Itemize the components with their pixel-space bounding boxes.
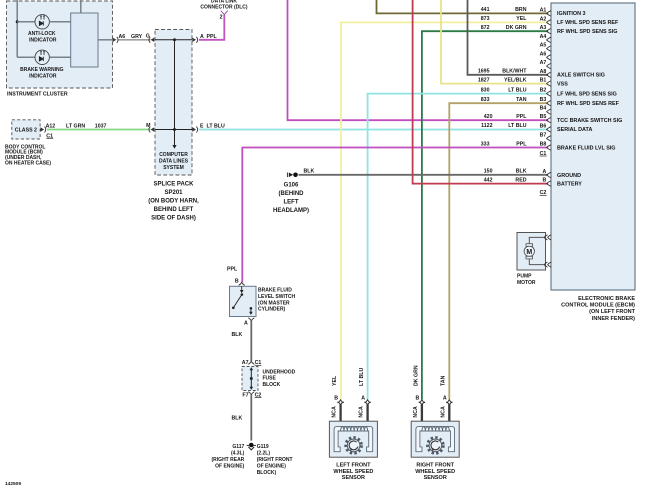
svg-text:CYLINDER): CYLINDER)	[258, 307, 286, 313]
computer data lines system box	[155, 30, 192, 176]
svg-text:(RIGHT REAR: (RIGHT REAR	[212, 457, 245, 463]
svg-text:A: A	[361, 396, 365, 402]
svg-text:B3: B3	[540, 97, 547, 103]
svg-text:WHEEL SPEED: WHEEL SPEED	[333, 469, 373, 475]
svg-text:AXLE SWITCH SIG: AXLE SWITCH SIG	[557, 73, 605, 79]
svg-text:B1: B1	[540, 78, 547, 84]
EBCM pin B6	[540, 123, 551, 132]
svg-text:RF WHL SPD SENS REF: RF WHL SPD SENS REF	[557, 101, 620, 107]
wire BLK 150 (G106 to EBCM A)	[299, 174, 549, 176]
svg-text:BLOCK): BLOCK)	[257, 470, 277, 476]
svg-text:NCA: NCA	[359, 406, 365, 418]
svg-text:2: 2	[220, 15, 223, 21]
svg-text:INSTRUMENT CLUSTER: INSTRUMENT CLUSTER	[7, 92, 68, 98]
svg-text:BEHIND LEFT: BEHIND LEFT	[154, 207, 194, 213]
node (bus serial junction)	[173, 128, 176, 131]
connector A6 (cluster edge)	[113, 37, 118, 43]
svg-text:830: 830	[481, 87, 490, 93]
svg-text:GROUND: GROUND	[557, 173, 581, 179]
anti-lock indicator LED	[28, 15, 57, 44]
ground G117/G119	[212, 443, 293, 476]
svg-text:B8: B8	[540, 142, 547, 148]
wire BLK/WHT 1695 (top edge to EBCM A8)	[468, 0, 549, 75]
instrument cluster box	[7, 1, 113, 98]
EBCM box	[551, 3, 635, 290]
svg-text:WHEEL SPEED: WHEEL SPEED	[415, 469, 455, 475]
svg-text:COMPUTER: COMPUTER	[159, 152, 188, 158]
svg-text:BLK: BLK	[232, 416, 243, 422]
node (bus top junction)	[173, 38, 176, 41]
svg-text:A8: A8	[540, 69, 547, 75]
svg-text:A: A	[443, 396, 447, 402]
svg-text:HEADLAMP): HEADLAMP)	[273, 208, 309, 214]
svg-text:UNDERHOOD: UNDERHOOD	[263, 369, 296, 375]
left front sensor label	[333, 463, 373, 482]
svg-text:LEFT FRONT: LEFT FRONT	[336, 463, 371, 469]
wire NCA pigtail B	[339, 404, 341, 428]
EBCM pin B5	[540, 114, 551, 123]
data link connector DLC pin 2	[200, 0, 247, 21]
svg-text:A: A	[244, 321, 248, 327]
svg-text:A3: A3	[540, 25, 547, 31]
EBCM pin A1	[540, 7, 551, 16]
svg-text:BRAKE WARNING: BRAKE WARNING	[20, 67, 63, 73]
wire TAN 833 (EBCM B3 to RF sensor)	[449, 103, 548, 399]
svg-text:BRN: BRN	[515, 7, 527, 13]
svg-text:LT BLU: LT BLU	[359, 368, 365, 386]
svg-text:A6: A6	[119, 34, 126, 40]
svg-text:VSS: VSS	[557, 81, 568, 87]
svg-text:SP201: SP201	[164, 190, 183, 196]
EBCM pin A3	[540, 25, 551, 34]
wire (brake warning to module box)	[49, 56, 70, 58]
wire (module box to cluster edge, pin A6)	[98, 39, 112, 41]
svg-text:PPL: PPL	[516, 114, 527, 120]
svg-text:1037: 1037	[95, 124, 107, 130]
svg-text:LF WHL SPD SENS REF: LF WHL SPD SENS REF	[557, 20, 619, 26]
wire LT BLU 1122 (serial data to EBCM B6)	[199, 129, 548, 131]
svg-text:TAN: TAN	[516, 97, 527, 103]
svg-text:PPL: PPL	[227, 267, 238, 273]
wire RED 442 (top edge to EBCM B)	[413, 0, 549, 184]
svg-text:LT BLU: LT BLU	[508, 87, 526, 93]
wire LT BLU 830 (EBCM B2 to LF sensor)	[368, 94, 549, 400]
EBCM connector label C1	[540, 151, 547, 157]
svg-text:ANTI-LOCK: ANTI-LOCK	[28, 31, 56, 37]
svg-text:GRY: GRY	[131, 34, 143, 40]
svg-text:YEL: YEL	[332, 375, 338, 386]
EBCM pin B4	[540, 106, 551, 115]
svg-text:IGNITION 3: IGNITION 3	[557, 11, 585, 17]
svg-text:G119: G119	[257, 444, 269, 450]
svg-text:(ON MASTER: (ON MASTER	[258, 300, 290, 306]
svg-text:(BEHIND: (BEHIND	[279, 191, 305, 197]
wire YEL 873 (EBCM A2 to LF sensor)	[341, 22, 548, 399]
class 2 module box	[12, 120, 40, 139]
svg-text:SERIAL DATA: SERIAL DATA	[557, 127, 592, 133]
EBCM pin A5	[540, 43, 551, 52]
wire BRN 441 (from top edge to EBCM A1)	[377, 0, 549, 13]
svg-text:NCA: NCA	[332, 406, 338, 418]
connector (pump motor top lead)	[544, 235, 551, 240]
svg-text:142509: 142509	[5, 481, 21, 487]
wire (module box to top edge)	[80, 0, 82, 13]
node (rail junction)	[16, 20, 19, 23]
svg-text:BATTERY: BATTERY	[557, 181, 582, 187]
EBCM pin B	[543, 178, 551, 187]
svg-text:CLASS 2: CLASS 2	[15, 128, 37, 134]
body control module label	[5, 144, 51, 166]
connector (pump motor bottom lead)	[544, 262, 551, 267]
svg-text:G117: G117	[232, 444, 244, 450]
svg-text:LT GRN: LT GRN	[66, 124, 85, 130]
connector A7/C1 (fuse block top)	[242, 360, 262, 366]
svg-text:SPLICE PACK: SPLICE PACK	[154, 182, 195, 188]
EBCM connector label C2	[540, 190, 547, 196]
svg-text:CONTROL MODULE (EBCM): CONTROL MODULE (EBCM)	[561, 303, 635, 309]
brake warning indicator LED	[20, 50, 63, 80]
svg-text:B: B	[235, 279, 239, 285]
svg-text:B: B	[543, 178, 547, 184]
svg-text:M: M	[526, 249, 532, 256]
svg-text:BLK: BLK	[516, 169, 527, 175]
EBCM pin A4	[540, 34, 551, 43]
svg-text:RED: RED	[515, 177, 526, 183]
wire (left rail)	[16, 0, 18, 57]
svg-text:BLK/WHT: BLK/WHT	[502, 69, 527, 75]
svg-text:(ON LEFT FRONT: (ON LEFT FRONT	[589, 309, 635, 315]
svg-text:B5: B5	[540, 114, 547, 120]
svg-text:DATA LINES: DATA LINES	[159, 158, 189, 164]
connector A12 (class 2 box edge)	[40, 127, 45, 133]
svg-text:A2: A2	[540, 16, 547, 22]
svg-text:1695: 1695	[478, 69, 490, 75]
svg-text:TAN: TAN	[441, 375, 447, 386]
svg-text:CONNECTOR (DLC): CONNECTOR (DLC)	[200, 4, 247, 10]
svg-text:B2: B2	[540, 88, 547, 94]
cluster internal module box	[71, 13, 98, 67]
connector F7/C2 (fuse block bottom)	[242, 392, 261, 399]
right front wheel speed sensor body	[411, 421, 459, 457]
svg-text:A5: A5	[540, 43, 547, 49]
wire PPL 333 (EBCM B8 to brake fluid switch)	[242, 148, 548, 283]
EBCM pin B8	[540, 142, 551, 151]
svg-text:B6: B6	[540, 123, 547, 129]
underhood fuse block	[242, 367, 296, 391]
EBCM pin A7	[540, 60, 551, 69]
wire NCA pigtail B	[421, 404, 423, 428]
svg-text:A: A	[543, 169, 547, 175]
svg-text:M: M	[146, 123, 151, 129]
wire YEL/BLK 1827 (top edge to EBCM B1)	[441, 0, 548, 84]
svg-text:LF WHL SPD SENS SIG: LF WHL SPD SENS SIG	[557, 91, 617, 97]
left front wheel speed sensor body	[329, 421, 377, 457]
wire BLK (fuse block to ground)	[250, 395, 252, 441]
svg-text:1827: 1827	[478, 77, 490, 83]
EBCM pin A	[543, 169, 551, 178]
svg-text:LT BLU: LT BLU	[508, 123, 526, 129]
svg-text:INNER FENDER): INNER FENDER)	[592, 316, 635, 322]
wire (rail to brake warning indicator)	[17, 56, 35, 58]
svg-text:333: 333	[481, 141, 490, 147]
svg-text:BLOCK: BLOCK	[263, 382, 281, 388]
svg-text:BRAKE FLUID: BRAKE FLUID	[258, 288, 292, 294]
EBCM pin B2	[540, 88, 551, 97]
svg-text:B: B	[334, 396, 338, 402]
EBCM pin B7	[540, 132, 551, 141]
wire (anti-lock to module box)	[49, 21, 70, 23]
right front sensor label	[415, 463, 455, 482]
svg-text:442: 442	[484, 177, 493, 183]
svg-text:TCC BRAKE SWITCH SIG: TCC BRAKE SWITCH SIG	[557, 118, 622, 124]
svg-text:SYSTEM: SYSTEM	[163, 165, 184, 171]
svg-text:872: 872	[481, 25, 490, 31]
svg-text:B: B	[416, 396, 420, 402]
svg-text:(RIGHT FRONT: (RIGHT FRONT	[257, 457, 293, 463]
svg-text:A7: A7	[540, 60, 547, 66]
svg-text:ON HEATER CASE): ON HEATER CASE)	[5, 161, 51, 167]
wire BLK (switch to fuse block)	[250, 321, 252, 361]
connector E (data lines box right edge)	[192, 127, 197, 133]
svg-text:1122: 1122	[481, 123, 492, 129]
svg-text:(ON BODY HARN,: (ON BODY HARN,	[148, 199, 199, 205]
svg-text:B7: B7	[540, 132, 547, 138]
svg-text:A7: A7	[242, 360, 249, 366]
wire PPL 420 (from top edge to EBCM B5)	[288, 0, 549, 120]
svg-text:OF ENGINE): OF ENGINE)	[215, 463, 245, 469]
svg-text:A4: A4	[540, 34, 547, 40]
wire DK GRN 872 (EBCM A3 to RF sensor)	[422, 31, 548, 399]
EBCM internal pin function labels	[557, 11, 622, 187]
svg-text:ELECTRONIC BRAKE: ELECTRONIC BRAKE	[578, 296, 635, 302]
wire NCA pigtail A	[366, 404, 368, 428]
svg-text:(2.2L): (2.2L)	[257, 451, 271, 457]
EBCM pin B3	[540, 97, 551, 106]
svg-text:(4.3L): (4.3L)	[231, 451, 245, 457]
svg-text:FUSE: FUSE	[263, 376, 277, 382]
svg-text:873: 873	[481, 16, 490, 22]
svg-text:LEFT: LEFT	[284, 200, 299, 206]
svg-text:420: 420	[484, 114, 493, 120]
svg-text:YEL: YEL	[516, 16, 527, 22]
ground G106	[273, 168, 314, 214]
wire LT GRN 1037	[47, 129, 151, 131]
brake fluid level switch	[227, 267, 296, 327]
wire (internal bus of data lines box)	[155, 40, 192, 149]
EBCM pin B1	[540, 78, 551, 87]
svg-text:RIGHT FRONT: RIGHT FRONT	[416, 463, 454, 469]
svg-text:INDICATOR: INDICATOR	[29, 37, 57, 43]
svg-text:SENSOR: SENSOR	[424, 475, 447, 481]
svg-text:B4: B4	[540, 106, 547, 112]
EBCM pin A6	[540, 51, 551, 60]
svg-text:833: 833	[481, 97, 490, 103]
svg-text:PPL: PPL	[516, 141, 527, 147]
EBCM pin A2	[540, 16, 551, 25]
wire GRY (cluster to data lines box)	[119, 39, 151, 41]
svg-text:SENSOR: SENSOR	[342, 475, 365, 481]
svg-text:DK GRN: DK GRN	[413, 365, 419, 386]
EBCM label	[561, 296, 635, 322]
pump motor	[517, 233, 546, 287]
svg-text:PUMP: PUMP	[517, 274, 532, 280]
svg-text:A1: A1	[540, 7, 547, 13]
svg-text:G106: G106	[284, 183, 299, 189]
svg-text:A6: A6	[540, 51, 547, 57]
svg-text:SIDE OF DASH): SIDE OF DASH)	[151, 216, 196, 222]
svg-text:F7: F7	[242, 392, 248, 398]
splice pack label	[148, 182, 199, 222]
svg-text:BRAKE FLUID LVL SIG: BRAKE FLUID LVL SIG	[557, 145, 616, 151]
wire NCA pigtail A	[448, 404, 450, 428]
svg-text:MOTOR: MOTOR	[517, 280, 536, 286]
wire (rail to anti-lock indicator)	[17, 21, 35, 23]
svg-text:LEVEL SWITCH: LEVEL SWITCH	[258, 294, 296, 300]
svg-text:BLK: BLK	[304, 168, 315, 174]
svg-text:441: 441	[481, 7, 490, 13]
svg-text:BLK: BLK	[232, 332, 243, 338]
svg-text:RF WHL SPD SENS SIG: RF WHL SPD SENS SIG	[557, 29, 617, 35]
svg-text:NCA: NCA	[413, 406, 419, 418]
svg-text:DK GRN: DK GRN	[506, 25, 527, 31]
svg-text:OF ENGINE): OF ENGINE)	[257, 463, 287, 469]
svg-text:NCA: NCA	[440, 406, 446, 418]
connector A (data lines box right edge)	[192, 37, 197, 43]
svg-text:YEL/BLK: YEL/BLK	[504, 77, 527, 83]
EBCM pin A8	[540, 69, 551, 78]
svg-text:150: 150	[484, 169, 493, 175]
wire PPL (to DLC pin 2)	[199, 15, 224, 40]
svg-text:INDICATOR: INDICATOR	[29, 74, 57, 80]
